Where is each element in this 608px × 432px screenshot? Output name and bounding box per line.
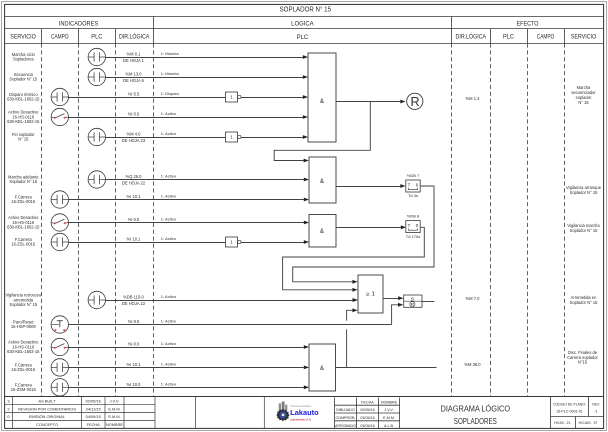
svg-text:E.M.M.: E.M.M. [108, 414, 120, 419]
svg-text:PLC: PLC [91, 34, 102, 41]
svg-text:DE HOJA 6: DE HOJA 6 [123, 78, 145, 83]
svg-text:1: 1 [230, 135, 233, 140]
effect label: Arremetida [570, 295, 599, 305]
OR gate U5 [358, 275, 383, 313]
approval table row 0 [361, 400, 397, 404]
revision table row: EMISIÓN ORIGINAL [7, 414, 120, 419]
selector switch symbol: Activo Desactivo 16-HS-0116 630-KBL-1602-15 [51, 108, 68, 125]
svg-text:Soplador N° 15: Soplador N° 15 [9, 302, 38, 307]
svg-text:1: Activo: 1: Activo [161, 217, 177, 222]
title block cell separators [195, 397, 399, 429]
wire OR output to SR latch S input [383, 298, 398, 300]
svg-text:CONCEPTO: CONCEPTO [36, 422, 58, 427]
svg-text:%M 1.3: %M 1.3 [466, 96, 481, 101]
svg-text:1: Marcha: 1: Marcha [161, 71, 180, 76]
selector switch symbol: Activo Desactivo 16-HS-0116 630-KBL-1602-15 [51, 214, 68, 231]
svg-text:DIR.LÓGICA: DIR.LÓGICA [119, 34, 150, 41]
svg-text:PLC: PLC [297, 34, 309, 41]
arrow into OR input 3 [353, 298, 358, 302]
svg-text:16-ZSL-0016: 16-ZSL-0016 [11, 367, 36, 372]
wire row 4 from indicator to logic [69, 117, 303, 119]
wire feedback from U1 output down to U2 input [274, 102, 370, 161]
svg-text:97: 97 [594, 421, 598, 425]
service label row 6: Marcha adelante Soplador N° 15 [8, 175, 39, 185]
svg-text:SERVICIO: SERVICIO [571, 34, 597, 41]
svg-text:Soplador N° 15: Soplador N° 15 [570, 190, 599, 195]
service label row 4: Activo Desactivo 16-HS-0116 630-KBL-1602-15 [7, 110, 40, 124]
wire U4 output [336, 367, 437, 369]
inverter (negation) block [226, 132, 242, 142]
svg-text:630-KBL-1602-15: 630-KBL-1602-15 [7, 349, 40, 354]
svg-text:FECHA: FECHA [87, 422, 101, 427]
svg-text:%I 10.0: %I 10.0 [127, 382, 142, 387]
pushbutton symbol: Paro/Reset 16-HSP-0009 [51, 316, 68, 333]
wire row 8 from indicator to logic [69, 222, 304, 224]
svg-text:16-ZSL-0016: 16-ZSL-0016 [11, 199, 36, 204]
revision table row: AS BUILT [7, 398, 119, 403]
wire row 12 from indicator to logic [69, 347, 304, 349]
arrow into SR latch S input [398, 296, 403, 300]
svg-text:630-KBL-1602-15: 630-KBL-1602-15 [7, 97, 40, 102]
svg-text:Soplador N° 15: Soplador N° 15 [570, 300, 599, 305]
svg-text:DE HOJA 22: DE HOJA 22 [122, 180, 146, 185]
svg-text:1: Activo: 1: Activo [161, 319, 177, 324]
svg-text:Td 4s: Td 4s [408, 193, 418, 198]
svg-text:DIAGRAMA LÓGICO: DIAGRAMA LÓGICO [441, 403, 511, 413]
svg-text:%I 0.0: %I 0.0 [128, 112, 140, 117]
indicator lamp/contact symbol: F.Carrera 16-ZSM-0016 [51, 379, 68, 396]
svg-text:16-ZSL-0016: 16-ZSL-0016 [11, 242, 36, 247]
svg-text:16-HSP-0009: 16-HSP-0009 [11, 324, 37, 329]
svg-text:3: 3 [595, 410, 597, 414]
svg-text:1: Activo: 1: Activo [161, 194, 177, 199]
svg-text:CAMPO: CAMPO [51, 34, 69, 41]
svg-text:Soplador N° 15: Soplador N° 15 [9, 77, 38, 82]
svg-text:%I 8.5: %I 8.5 [128, 319, 140, 324]
svg-text:%I 0.0: %I 0.0 [128, 217, 140, 222]
svg-text:T: T [408, 223, 411, 228]
svg-text:AS BUILT: AS BUILT [38, 398, 56, 403]
indicator lamp/contact symbol: Vigilancia retroceso arremetida Soplador N° 15 [88, 291, 105, 308]
svg-text:1: Activo: 1: Activo [161, 174, 177, 179]
service label row 9: F.Carrera 16-ZSL-0016 [11, 237, 36, 247]
svg-text:%Q 26.0: %Q 26.0 [126, 174, 143, 179]
dashed column separator lines [41, 43, 43, 396]
svg-text:%I 0.0: %I 0.0 [128, 342, 140, 347]
arrow into OR input 2 [352, 288, 357, 292]
indicator lamp/contact symbol: F.Carrera 16-ZSL-0016 [51, 359, 68, 376]
svg-text:%I 10.1: %I 10.1 [127, 194, 142, 199]
timer block %DB 8 [406, 214, 420, 239]
svg-text:SOPLADORES: SOPLADORES [454, 416, 497, 426]
wire U2 output to timer DB7 [336, 186, 400, 188]
SR latch U6 [404, 295, 422, 307]
wire timer DB7 output routed to OR input 1 [293, 186, 434, 282]
svg-text:E.M.M.: E.M.M. [383, 416, 395, 420]
svg-text:N°15: N°15 [578, 360, 588, 365]
svg-text:A.L.B.: A.L.B. [384, 424, 394, 428]
svg-text:N° 15: N° 15 [578, 100, 589, 105]
indicator lamp/contact symbol: Secuencia Soplador N° 15 [88, 68, 105, 85]
service label row 2: Secuencia Soplador N° 15 [9, 72, 38, 82]
svg-text:1: 1 [230, 95, 233, 100]
svg-text:DIR.LÓGICA: DIR.LÓGICA [456, 34, 487, 41]
svg-text:1: Marcha: 1: Marcha [161, 51, 180, 56]
svg-text:automóviles S.A.: automóviles S.A. [290, 418, 311, 422]
svg-text:EFECTO: EFECTO [517, 21, 539, 28]
svg-text:J.V.V.: J.V.V. [110, 398, 120, 403]
drawing title text [441, 403, 511, 426]
svg-text:HOJAS:: HOJAS: [579, 421, 592, 425]
wire timer DB8 output routed to OR input 2 [283, 227, 425, 289]
svg-text:1: Disparo: 1: Disparo [161, 91, 180, 96]
wire U3 output to timer DB8 [336, 227, 401, 229]
svg-text:NOMBRE: NOMBRE [381, 400, 398, 404]
wire row 7 from indicator to logic [69, 199, 304, 201]
service label row 5: Fin soplador N° 15 [12, 132, 35, 142]
code and revision cells [551, 397, 604, 429]
arrow into timer DB8 [401, 225, 406, 229]
timer block %DB 7 [406, 173, 420, 198]
service label row 13: F.Carrera 16-ZSL-0016 [11, 362, 36, 372]
svg-text:%DB 115-0: %DB 115-0 [123, 295, 144, 300]
svg-text:LOGICA: LOGICA [291, 21, 314, 28]
approval table grid [335, 398, 400, 429]
AND gate U3 [309, 215, 336, 248]
svg-text:1: Activo: 1: Activo [161, 341, 177, 346]
svg-text:03/05/16: 03/05/16 [360, 424, 374, 428]
service label row 14: F.Carrera 16-ZSM-0016 [11, 382, 37, 392]
svg-text:630-KBL-1602-15: 630-KBL-1602-15 [7, 224, 40, 229]
header: section verticals [153, 16, 155, 43]
svg-text:HOJA:: HOJA: [554, 421, 565, 425]
arrow into reset coil [400, 100, 405, 104]
svg-text:1: Activo: 1: Activo [161, 382, 177, 387]
svg-text:1: Activo: 1: Activo [161, 362, 177, 367]
effect label: Disc. Finales de Carrera [567, 350, 598, 365]
svg-text:1: Activo: 1: Activo [161, 131, 177, 136]
wire SR latch output stub [422, 301, 434, 303]
svg-text:REVISION POR COMENTARIOS: REVISION POR COMENTARIOS [18, 406, 76, 411]
wire row 2 from indicator to logic [106, 77, 303, 79]
svg-text:%DB 7: %DB 7 [407, 173, 420, 178]
svg-text:%I 10.1: %I 10.1 [127, 362, 142, 367]
svg-text:02/05/16: 02/05/16 [86, 398, 101, 403]
svg-text:APROBADO: APROBADO [335, 424, 356, 428]
svg-text:%M 0.1: %M 0.1 [127, 52, 142, 57]
indicator lamp/contact symbol: Marcha adelante Soplador N° 15 [88, 171, 105, 188]
svg-text:%M 38.0: %M 38.0 [464, 362, 481, 367]
service label row 10: Vigilancia retroceso arremetida Soplador N° 15 [5, 293, 41, 307]
svg-text:1: 1 [230, 240, 233, 245]
wire row 3 from indicator to logic [69, 97, 303, 99]
svg-text:04/09/15: 04/09/15 [86, 414, 101, 419]
svg-text:R: R [410, 95, 419, 109]
approval table row 1 [336, 408, 393, 412]
AND gate U1 [308, 53, 336, 142]
service label row 7: F.Carrera 16-ZSL-0016 [11, 195, 36, 205]
revision table row: REVISION POR COMENTARIOS [7, 406, 120, 411]
svg-text:Sopladores: Sopladores [13, 57, 34, 62]
svg-text:21: 21 [567, 421, 571, 425]
indicator lamp/contact symbol: F.Carrera 16-ZSL-0016 [51, 191, 68, 208]
effect label: Vigilancia marcha [567, 223, 600, 233]
arrow into OR input 4 [352, 308, 357, 312]
indicator lamp/contact symbol: Disparo térmico 630-KBL-1602-15 [51, 88, 68, 105]
svg-text:%DB 8: %DB 8 [407, 214, 420, 219]
reset coil R [407, 93, 423, 109]
svg-text:16-ZSM-0016: 16-ZSM-0016 [11, 387, 37, 392]
svg-text:Soplador N° 15: Soplador N° 15 [570, 228, 599, 233]
service label row 12: Activo Desactivo 16-HS-0116 630-KBL-1602-15 [7, 340, 40, 354]
wire row 9 from indicator to logic [69, 242, 304, 244]
wire branch U4 output up to OR input 4 (hop over row 11) [346, 329, 348, 367]
service label row 8: Activo Desactivo 16-HS-0116 630-KBL-1602-15 [7, 215, 40, 229]
approval table row 2 [335, 416, 394, 420]
svg-text:COMPROB.: COMPROB. [335, 416, 355, 420]
effect label: Marcha secuenciador soplador [571, 85, 596, 105]
company logo: Lakauto [276, 402, 318, 422]
svg-text:J.V.V.: J.V.V. [384, 408, 393, 412]
svg-text:SOPLADOR N° 15: SOPLADOR N° 15 [280, 6, 332, 14]
svg-text:02/05/16: 02/05/16 [360, 408, 374, 412]
svg-text:DE HOJA 23: DE HOJA 23 [122, 138, 146, 143]
svg-text:SERVICIO: SERVICIO [10, 34, 36, 41]
inverter (negation) block [226, 92, 242, 102]
svg-text:CAMPO: CAMPO [537, 34, 555, 41]
approval table row 3 [335, 424, 394, 428]
AND gate U2 [309, 157, 336, 203]
svg-text:FECHA: FECHA [361, 400, 374, 404]
svg-text:%M 4.0: %M 4.0 [127, 132, 142, 137]
svg-text:1: Activo: 1: Activo [161, 111, 177, 116]
svg-text:CODIGO DE PLANO:: CODIGO DE PLANO: [553, 402, 586, 406]
title block top line [5, 396, 604, 398]
wire U1 output to reset coil [336, 101, 400, 103]
wire row 1 from indicator to logic [106, 57, 303, 59]
arrow into U2 input 1 [304, 159, 309, 163]
svg-text:≥ 1: ≥ 1 [366, 291, 375, 297]
svg-text:Soplador N° 15: Soplador N° 15 [9, 179, 38, 184]
effect label: Vigilancia arranque [566, 185, 602, 195]
svg-text:INDICADORES: INDICADORES [59, 21, 99, 28]
svg-text:DE HOJA 22: DE HOJA 22 [122, 301, 146, 306]
indicator lamp/contact symbol: Fin soplador N° 15 [88, 128, 105, 145]
service label row 1: Marcha ciclo Sopladores [12, 52, 36, 62]
svg-text:16-PLC-0001-01: 16-PLC-0001-01 [556, 410, 583, 414]
svg-text:NOMBRE: NOMBRE [106, 422, 123, 427]
svg-text:1: Activo: 1: Activo [161, 236, 177, 241]
selector switch symbol: Activo Desactivo 16-HS-0116 630-KBL-1602-15 [51, 338, 68, 355]
wire row 10 from indicator to logic [106, 300, 353, 302]
svg-text:%M 13.0: %M 13.0 [125, 72, 142, 77]
svg-text:R: R [411, 302, 414, 307]
svg-text:630-KBL-1602-15: 630-KBL-1602-15 [7, 119, 40, 124]
svg-text:%M 7.0: %M 7.0 [466, 296, 481, 301]
service label row 3: Disparo térmico 630-KBL-1602-15 [7, 92, 40, 102]
svg-text:24/11/15: 24/11/15 [86, 406, 101, 411]
svg-text:03/05/16: 03/05/16 [360, 416, 374, 420]
svg-text:%I 5.5: %I 5.5 [128, 92, 140, 97]
svg-text:DIBUJADO: DIBUJADO [336, 408, 355, 412]
wire row 6 from indicator to logic [106, 179, 304, 181]
indicator lamp/contact symbol: Marcha ciclo Sopladores [88, 48, 105, 65]
wire row 11 from indicator to logic [69, 324, 392, 326]
svg-text:REV.: REV. [592, 402, 600, 406]
svg-text:T: T [408, 182, 411, 187]
inverter (negation) block [226, 237, 242, 247]
revision table row: CONCEPTO [36, 422, 123, 427]
AND gate U4 [309, 344, 336, 391]
service label row 11: Paro/Reset 16-HSP-0009 [11, 320, 37, 330]
arrow into OR input 1 [352, 280, 357, 284]
svg-text:EMISIÓN ORIGINAL: EMISIÓN ORIGINAL [29, 414, 66, 419]
svg-text:Td 170s: Td 170s [406, 234, 420, 239]
header: row separators [5, 16, 604, 18]
arrow into timer DB7 [400, 184, 405, 188]
svg-text:Proceso Automation: Proceso Automation [291, 405, 312, 408]
wire row 5 from indicator to logic [106, 137, 303, 139]
svg-text:PLC: PLC [503, 34, 514, 41]
arrow into SR latch R input [398, 303, 403, 307]
wire Paro/Reset up to SR latch R input [392, 305, 398, 325]
wire row 13 from indicator to logic [69, 367, 304, 369]
indicator lamp/contact symbol: F.Carrera 16-ZSL-0016 [51, 233, 68, 250]
svg-text:Lakauto: Lakauto [290, 410, 319, 417]
svg-text:N° 15: N° 15 [18, 137, 29, 142]
svg-text:1: Activo: 1: Activo [161, 294, 177, 299]
svg-text:E.M.M.: E.M.M. [108, 406, 120, 411]
svg-text:%I 10.1: %I 10.1 [127, 237, 142, 242]
svg-text:DE HOJA 1: DE HOJA 1 [123, 58, 145, 63]
wire row 14 from indicator to logic [69, 387, 304, 389]
revision table grid [5, 397, 155, 429]
